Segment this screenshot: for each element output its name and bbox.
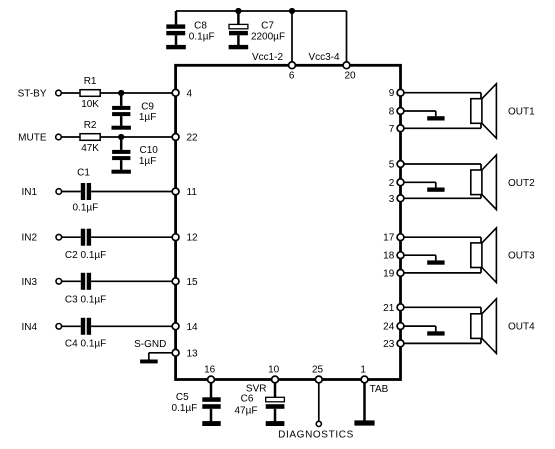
svg-text:21: 21: [383, 303, 395, 314]
label TAB: [370, 384, 389, 395]
label MUTE: [18, 133, 47, 144]
svg-text:OUT2: OUT2: [508, 178, 535, 189]
ground (OUT4 return): [427, 331, 444, 335]
wire pin 25 to diagnostics terminal: [318, 380, 320, 422]
wire top supply rail: [176, 10, 347, 12]
svg-text:1µF: 1µF: [139, 112, 156, 123]
capacitor C9: [112, 93, 130, 126]
label C8 value: [189, 20, 215, 42]
junction C7 top: [235, 8, 241, 14]
label C5: [176, 392, 189, 403]
net label Vcc1-2: [252, 52, 284, 63]
wire pin 9 to speaker OUT1 (+): [401, 93, 482, 99]
label IN4: [21, 322, 37, 333]
pin 15: [172, 277, 198, 288]
wire R2 to pin 22: [100, 136, 175, 138]
label C1 value: [73, 203, 99, 214]
pin 22: [172, 133, 198, 144]
capacitor C4: [81, 318, 91, 335]
svg-text:IN4: IN4: [21, 322, 37, 333]
svg-text:IN1: IN1: [21, 187, 37, 198]
svg-text:11: 11: [187, 187, 198, 198]
svg-text:18: 18: [383, 251, 395, 262]
pin 13: [172, 348, 198, 359]
label C1: [77, 168, 90, 179]
svg-text:0.1µF: 0.1µF: [172, 403, 198, 414]
capacitor C2: [81, 229, 91, 246]
svg-text:Vcc3-4: Vcc3-4: [308, 52, 340, 63]
ground (OUT2 return): [427, 188, 444, 192]
svg-text:C6: C6: [241, 394, 254, 405]
svg-text:3: 3: [389, 194, 395, 205]
wire pin 18 to ground: [401, 255, 436, 260]
svg-text:1: 1: [360, 365, 366, 376]
svg-text:5: 5: [389, 160, 395, 171]
wire MUTE to R2: [61, 136, 80, 138]
label 10K: [81, 99, 99, 110]
ground (C7): [229, 45, 249, 49]
label OUT4: [508, 322, 535, 333]
label C9 value: [139, 102, 156, 124]
wire R1 to pin 4: [100, 92, 175, 94]
pin 16: [204, 365, 216, 383]
ground (TAB): [354, 420, 374, 425]
svg-text:C9: C9: [141, 102, 154, 113]
speaker OUT2: [471, 155, 497, 210]
wire IN1 to C1: [62, 191, 81, 193]
ground (OUT1 return): [427, 116, 444, 120]
pin 17: [383, 233, 404, 244]
terminal IN4: [56, 324, 62, 330]
wire IN2 to C2: [62, 236, 81, 238]
net label Vcc3-4: [308, 52, 340, 63]
capacitor C8: [166, 11, 185, 45]
pin 5: [389, 160, 404, 171]
svg-text:4: 4: [187, 88, 193, 99]
junction node ST-BY/C9: [118, 90, 124, 96]
label C3 value: [65, 294, 106, 305]
label ST-BY: [18, 89, 47, 100]
svg-text:6: 6: [289, 70, 295, 81]
wire pin 21 to speaker OUT4 (+): [401, 307, 482, 314]
capacitor C3: [81, 273, 91, 290]
IC U1 body (quad power amplifier): [176, 65, 401, 379]
wire pin 23 to speaker OUT4 (-): [401, 338, 482, 343]
capacitor C1: [81, 183, 91, 200]
svg-text:C2 0.1µF: C2 0.1µF: [65, 250, 106, 261]
label DIAGNOSTICS: [278, 430, 354, 441]
terminal IN2: [56, 234, 62, 240]
svg-text:C3 0.1µF: C3 0.1µF: [65, 294, 106, 305]
svg-text:47K: 47K: [81, 143, 99, 154]
svg-text:13: 13: [187, 348, 199, 359]
svg-text:MUTE: MUTE: [18, 133, 47, 144]
svg-text:TAB: TAB: [370, 384, 389, 395]
ground (OUT3 return): [427, 260, 444, 264]
svg-text:C10: C10: [140, 145, 159, 156]
svg-text:9: 9: [389, 88, 395, 99]
label R1: [84, 76, 97, 87]
svg-text:10: 10: [268, 365, 280, 376]
svg-text:C4 0.1µF: C4 0.1µF: [65, 338, 106, 349]
svg-text:20: 20: [344, 70, 356, 81]
pin 21: [383, 303, 404, 314]
label 47K: [81, 143, 99, 154]
svg-text:OUT1: OUT1: [508, 107, 535, 118]
pin 12: [172, 233, 198, 244]
svg-text:IN3: IN3: [21, 277, 37, 288]
wire C2 to IC: [91, 236, 176, 238]
wire pin 24 to ground: [401, 326, 436, 331]
svg-text:R2: R2: [84, 120, 97, 131]
ground (C6): [266, 421, 285, 426]
junction Vcc1-2 branch: [289, 8, 295, 14]
wire pin 5 to speaker OUT2 (+): [401, 164, 482, 170]
svg-text:10K: 10K: [81, 99, 99, 110]
label C6 value: [235, 405, 258, 416]
pin 23: [383, 339, 404, 350]
wire pin 13 to signal ground: [149, 353, 176, 360]
svg-text:OUT4: OUT4: [508, 322, 535, 333]
svg-text:16: 16: [204, 365, 216, 376]
svg-text:0.1µF: 0.1µF: [73, 203, 99, 214]
label IN2: [21, 233, 37, 244]
pin 2: [389, 178, 404, 189]
wire pin 10 to C6: [274, 380, 277, 398]
pin 3: [389, 194, 404, 205]
speaker OUT4: [471, 299, 497, 354]
wire IN3 to C3: [62, 280, 81, 282]
svg-text:C1: C1: [77, 168, 90, 179]
svg-text:IN2: IN2: [21, 233, 37, 244]
svg-text:25: 25: [312, 365, 324, 376]
terminal IN1: [56, 189, 62, 195]
svg-text:2200µF: 2200µF: [251, 32, 285, 43]
wire pin 1 to ground: [363, 380, 366, 421]
svg-text:0.1µF: 0.1µF: [189, 32, 215, 43]
speaker OUT3: [471, 228, 497, 283]
svg-text:R1: R1: [84, 76, 97, 87]
svg-text:23: 23: [383, 339, 395, 350]
label C5 value: [172, 403, 198, 414]
label OUT2: [508, 178, 535, 189]
svg-text:12: 12: [187, 233, 199, 244]
label C10 value: [139, 145, 158, 167]
wire to pin 20 (Vcc3-4): [346, 11, 348, 65]
speaker OUT1: [471, 84, 497, 139]
svg-text:DIAGNOSTICS: DIAGNOSTICS: [278, 430, 354, 441]
label C7 value: [251, 20, 285, 42]
label S-GND: [134, 339, 166, 350]
svg-text:24: 24: [383, 322, 395, 333]
label C4 value: [65, 338, 106, 349]
wire ST-BY to R1: [61, 92, 80, 94]
wire pin 2 to ground: [401, 182, 436, 187]
label OUT3: [508, 251, 535, 262]
pin 20: [343, 62, 356, 82]
svg-text:15: 15: [187, 277, 199, 288]
svg-text:7: 7: [389, 124, 395, 135]
capacitor C5: [202, 397, 220, 421]
label C6: [241, 394, 254, 405]
pin 9: [389, 88, 404, 99]
pin 10: [268, 365, 280, 383]
wire pin 7 to speaker OUT1 (-): [401, 123, 482, 128]
ground (C8): [166, 45, 186, 49]
junction node MUTE/C10: [118, 134, 124, 140]
wire C3 to IC: [91, 280, 176, 282]
pin 1: [360, 365, 367, 383]
svg-text:C8: C8: [194, 20, 207, 31]
pin 6: [289, 62, 296, 82]
net label SVR: [246, 384, 267, 395]
terminal IN3: [56, 279, 62, 285]
ground (S-GND): [140, 360, 158, 364]
svg-text:C5: C5: [176, 392, 189, 403]
label C2 value: [65, 250, 106, 261]
svg-text:1µF: 1µF: [139, 156, 156, 167]
label OUT1: [508, 107, 535, 118]
svg-text:47µF: 47µF: [235, 405, 258, 416]
resistor R2: [80, 134, 100, 141]
label R2: [84, 120, 97, 131]
svg-text:8: 8: [389, 107, 395, 118]
pin 25: [312, 365, 324, 383]
wire pin 8 to ground: [401, 111, 436, 116]
wire pin 19 to speaker OUT3 (-): [401, 268, 482, 273]
resistor R1: [80, 90, 100, 97]
svg-text:19: 19: [383, 268, 395, 279]
svg-text:S-GND: S-GND: [134, 339, 166, 350]
ground (C5): [202, 421, 220, 426]
pin 11: [172, 187, 197, 198]
capacitor C6 (electrolytic): [266, 397, 285, 421]
pin 19: [383, 268, 404, 279]
svg-text:ST-BY: ST-BY: [18, 89, 47, 100]
pin 4: [172, 88, 192, 99]
svg-text:17: 17: [383, 233, 395, 244]
svg-text:2: 2: [389, 178, 395, 189]
pin 24: [383, 322, 404, 333]
pin 8: [389, 107, 404, 118]
terminal DIAGNOSTICS: [316, 421, 321, 426]
wire C4 to IC: [91, 325, 176, 327]
svg-text:C7: C7: [261, 20, 274, 31]
svg-text:14: 14: [187, 322, 199, 333]
wire C1 to IC: [91, 191, 176, 193]
wire to pin 6 (Vcc1-2): [291, 11, 293, 65]
wire IN4 to C4: [62, 325, 81, 327]
ground (C10): [112, 170, 131, 174]
svg-text:Vcc1-2: Vcc1-2: [252, 52, 284, 63]
pin 14: [172, 322, 198, 333]
terminal MUTE: [56, 134, 62, 140]
terminal ST-BY: [56, 90, 62, 96]
capacitor C7 (electrolytic): [229, 11, 248, 45]
ground (C9): [112, 126, 131, 130]
label IN1: [21, 187, 37, 198]
svg-text:OUT3: OUT3: [508, 251, 535, 262]
capacitor C10: [112, 137, 130, 170]
wire pin 16 to C5: [210, 380, 213, 398]
svg-text:22: 22: [187, 133, 199, 144]
pin 7: [389, 124, 404, 135]
pin 18: [383, 251, 404, 262]
wire pin 3 to speaker OUT2 (-): [401, 195, 482, 199]
label IN3: [21, 277, 37, 288]
wire pin 17 to speaker OUT3 (+): [401, 237, 482, 243]
